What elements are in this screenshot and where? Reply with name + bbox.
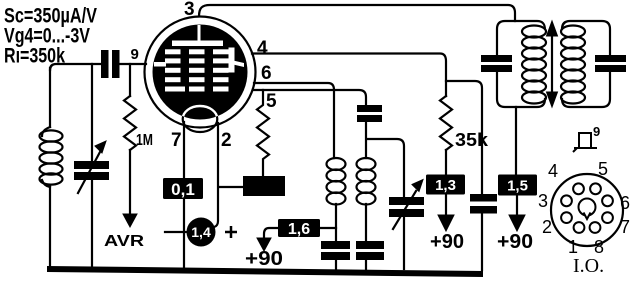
oscillator coil left winding bbox=[327, 158, 346, 170]
wire pin7 filament bbox=[183, 122, 185, 269]
capacitor below right osc coil bbox=[356, 241, 384, 260]
capacitor screen bypass plates bbox=[470, 194, 497, 214]
capacitor variable osc plates bbox=[389, 197, 424, 217]
wire 1M branch bbox=[129, 64, 131, 96]
wire pin6 to oscillator coil bbox=[254, 83, 334, 158]
capacitor IF left plates bbox=[481, 55, 512, 72]
arrow below 1,5 box bbox=[516, 196, 518, 216]
svg-text:3: 3 bbox=[184, 0, 195, 20]
svg-text:2: 2 bbox=[221, 130, 232, 151]
IF transformer right tank loop bbox=[562, 21, 610, 107]
resistor box 1,6 bbox=[278, 219, 320, 237]
box value labels white bbox=[171, 177, 528, 240]
resistor grid-leak zigzag from pin5 bbox=[257, 90, 269, 176]
svg-text:1,3: 1,3 bbox=[435, 177, 456, 194]
tube V1 inner electrode assembly bbox=[153, 25, 248, 120]
capacitor C2 coupling plates bbox=[101, 50, 120, 78]
grid bars right column bbox=[213, 49, 229, 54]
pin9 stub bbox=[154, 62, 166, 67]
resistor box 0,1 bbox=[163, 178, 203, 199]
svg-text:0,1: 0,1 bbox=[171, 180, 195, 199]
wire battery minus lead bbox=[165, 231, 187, 233]
wire 1,6 box left to +90 arrow bbox=[264, 228, 278, 238]
wire 35k to 1,3 box bbox=[445, 150, 447, 175]
svg-text:3: 3 bbox=[538, 191, 548, 211]
resistor 1M zigzag bbox=[124, 96, 136, 150]
capacitor below left osc coil bbox=[321, 241, 350, 260]
wire IF primary bottom to 1,5 box bbox=[515, 107, 517, 175]
tube V1 envelope bbox=[145, 17, 256, 128]
svg-text:+90: +90 bbox=[245, 248, 283, 270]
battery plus sign bbox=[225, 226, 237, 238]
svg-text:AVR: AVR bbox=[104, 233, 145, 250]
capacitor fixed osc series plates bbox=[357, 105, 382, 122]
arrow below 1,3 box bbox=[445, 195, 447, 216]
socket center keyway bbox=[579, 199, 596, 216]
arrow of variable osc capacitor bbox=[393, 191, 416, 229]
svg-text:5: 5 bbox=[266, 91, 277, 112]
svg-text:Rı=350k: Rı=350k bbox=[4, 44, 65, 67]
socket pin holes bbox=[573, 183, 584, 194]
capacitor variable C1 plates bbox=[74, 161, 109, 180]
inductor IF right coil bbox=[561, 26, 585, 38]
svg-text:9: 9 bbox=[593, 124, 600, 139]
resistor box 1,3 bbox=[426, 175, 465, 195]
svg-text:4: 4 bbox=[257, 38, 268, 59]
wire box to pin2 bbox=[219, 186, 243, 188]
wire antenna left vertical bbox=[49, 68, 51, 269]
wire pin2 filament bbox=[214, 123, 218, 227]
oscillator coil right winding bbox=[357, 158, 376, 170]
arrow AVR bbox=[123, 214, 137, 227]
grid bars left column bbox=[165, 49, 181, 54]
svg-text:4: 4 bbox=[548, 161, 558, 181]
resistor 35k zigzag bbox=[440, 96, 452, 150]
coupling arrow between IF coils bbox=[551, 32, 553, 96]
svg-text:1,4: 1,4 bbox=[191, 224, 211, 240]
wire plate pin3 to IF transformer bbox=[199, 5, 515, 21]
inductor L1 antenna coil bbox=[42, 127, 50, 136]
tube socket I.O. bbox=[551, 174, 623, 246]
resistor box 1,5 bbox=[498, 175, 537, 196]
ground bus bbox=[47, 266, 483, 277]
svg-text:8: 8 bbox=[594, 237, 604, 257]
svg-text:1: 1 bbox=[568, 237, 578, 257]
wire to AVR arrow bbox=[129, 150, 131, 214]
inductor IF left coil bbox=[522, 26, 546, 38]
svg-text:1M: 1M bbox=[136, 132, 153, 149]
svg-text:I.O.: I.O. bbox=[573, 255, 604, 277]
svg-text:6: 6 bbox=[261, 63, 272, 84]
top cap symbol pin 9 bbox=[573, 133, 597, 152]
wire 1,6 box right to osc coil bbox=[320, 227, 336, 229]
svg-text:2: 2 bbox=[542, 217, 552, 237]
IF transformer left tank loop bbox=[497, 21, 545, 107]
arrow of variable capacitor C1 bbox=[78, 152, 100, 193]
wire screen bypass branch bbox=[446, 81, 482, 270]
anode plate bar bbox=[172, 41, 223, 47]
resistor grid capacitor black box bbox=[243, 176, 285, 196]
svg-text:1,5: 1,5 bbox=[507, 178, 528, 195]
grid bracket to pin4 bbox=[229, 48, 235, 73]
svg-text:+90: +90 bbox=[497, 231, 533, 253]
svg-text:5: 5 bbox=[598, 159, 608, 179]
svg-text:7: 7 bbox=[171, 130, 182, 151]
capacitor IF right plates bbox=[595, 55, 626, 72]
grid bars middle column bbox=[189, 49, 205, 54]
wire pin5 oscillator grid bbox=[253, 90, 404, 269]
battery 1,4 bbox=[187, 218, 216, 247]
svg-text:+90: +90 bbox=[430, 231, 464, 253]
svg-text:35k: 35k bbox=[455, 130, 489, 150]
wire variable cap branch bbox=[91, 64, 93, 269]
svg-text:6: 6 bbox=[620, 193, 630, 213]
wire antenna top horizontal bbox=[50, 64, 146, 70]
svg-text:7: 7 bbox=[620, 217, 630, 237]
svg-text:1,6: 1,6 bbox=[288, 221, 310, 238]
wire pin4 screen to 35k bbox=[252, 54, 446, 97]
svg-text:9: 9 bbox=[131, 46, 139, 63]
cathode circle bbox=[183, 106, 218, 132]
